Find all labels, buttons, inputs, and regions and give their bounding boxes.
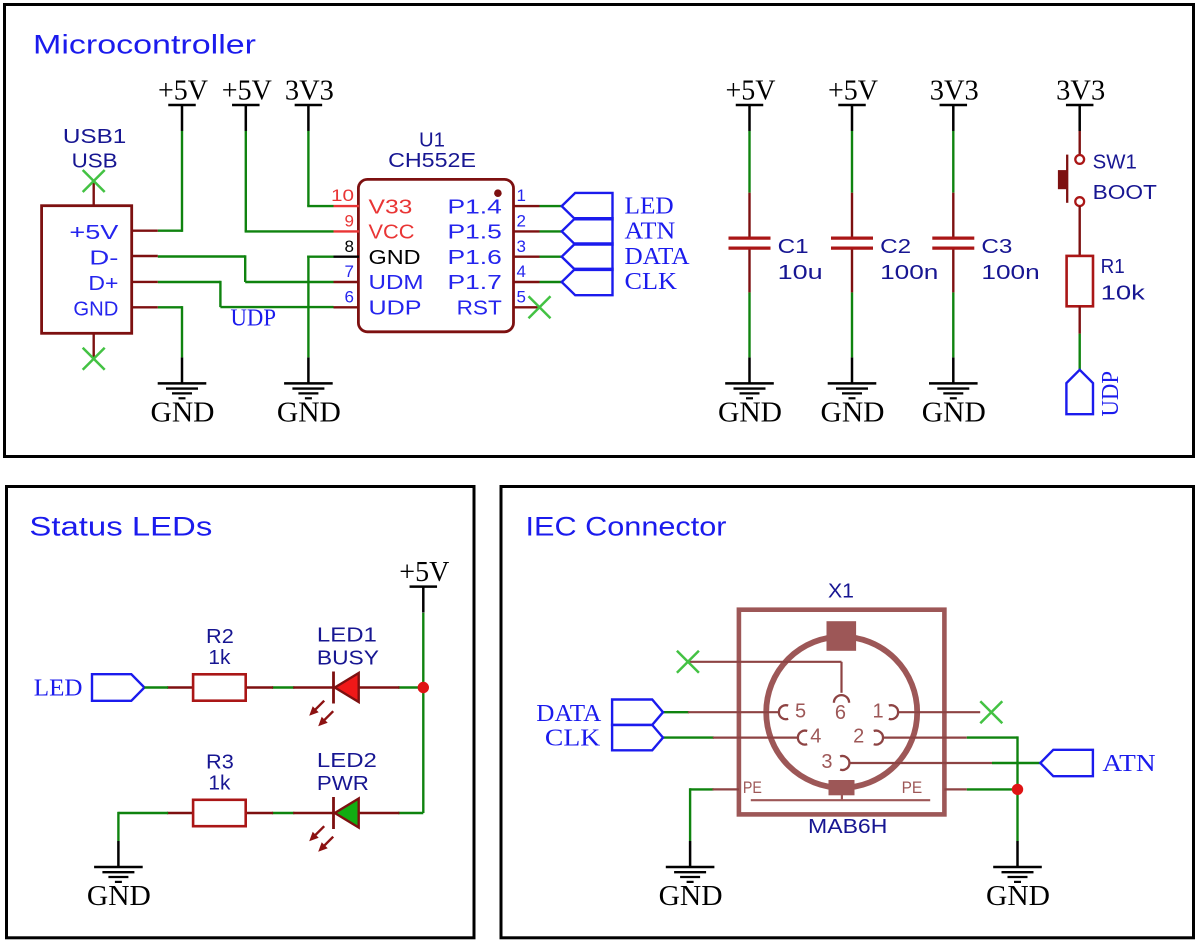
svg-text:CLK: CLK <box>625 269 678 295</box>
svg-text:USB1: USB1 <box>63 126 126 148</box>
svg-text:C1: C1 <box>778 236 809 258</box>
svg-text:DATA: DATA <box>625 244 691 270</box>
svg-text:ATN: ATN <box>1102 751 1155 777</box>
svg-text:3V3: 3V3 <box>285 76 334 107</box>
svg-text:UDP: UDP <box>231 306 277 332</box>
svg-text:UDP: UDP <box>1098 371 1124 417</box>
svg-text:Status LEDs: Status LEDs <box>29 512 212 542</box>
svg-text:5: 5 <box>517 287 526 306</box>
svg-text:8: 8 <box>345 237 354 256</box>
svg-text:+5V: +5V <box>828 76 878 107</box>
svg-text:D-: D- <box>89 248 118 270</box>
svg-text:6: 6 <box>345 287 354 306</box>
svg-text:4: 4 <box>517 262 526 281</box>
svg-text:1: 1 <box>517 186 526 205</box>
svg-text:3V3: 3V3 <box>930 76 979 107</box>
svg-text:3V3: 3V3 <box>1056 76 1105 107</box>
svg-text:P1.6: P1.6 <box>448 247 502 269</box>
svg-text:LED2: LED2 <box>317 750 377 772</box>
svg-text:1k: 1k <box>208 647 231 669</box>
svg-text:IEC Connector: IEC Connector <box>526 512 727 542</box>
svg-text:P1.5: P1.5 <box>448 222 502 244</box>
svg-text:BUSY: BUSY <box>317 648 379 670</box>
svg-text:GND: GND <box>922 398 986 429</box>
svg-text:GND: GND <box>87 881 151 912</box>
svg-text:GND: GND <box>659 881 723 912</box>
svg-text:9: 9 <box>345 212 354 231</box>
svg-text:PWR: PWR <box>317 773 369 795</box>
svg-text:2: 2 <box>853 726 864 748</box>
svg-text:C2: C2 <box>880 236 911 258</box>
svg-text:R2: R2 <box>206 626 234 648</box>
svg-text:+5V: +5V <box>158 76 208 107</box>
svg-text:DATA: DATA <box>536 701 602 727</box>
svg-text:6: 6 <box>835 702 846 724</box>
svg-text:UDP: UDP <box>369 298 422 320</box>
svg-text:1k: 1k <box>208 772 231 794</box>
svg-text:GND: GND <box>151 398 215 429</box>
svg-text:V33: V33 <box>369 196 413 218</box>
svg-text:3: 3 <box>517 237 526 256</box>
svg-text:+5V: +5V <box>69 222 119 244</box>
svg-text:R3: R3 <box>206 752 234 774</box>
svg-text:+5V: +5V <box>399 557 449 588</box>
svg-text:Microcontroller: Microcontroller <box>33 30 256 60</box>
svg-text:LED: LED <box>625 193 674 219</box>
svg-text:R1: R1 <box>1101 256 1125 278</box>
svg-text:MAB6H: MAB6H <box>808 816 887 838</box>
svg-text:3: 3 <box>821 751 832 773</box>
svg-text:GND: GND <box>73 299 118 321</box>
svg-text:SW1: SW1 <box>1093 152 1137 174</box>
svg-text:C3: C3 <box>981 236 1012 258</box>
svg-text:PE: PE <box>902 778 923 797</box>
svg-text:2: 2 <box>517 212 526 231</box>
svg-text:UDM: UDM <box>369 272 424 294</box>
svg-text:GND: GND <box>718 398 782 429</box>
svg-text:7: 7 <box>345 262 354 281</box>
svg-text:RST: RST <box>457 298 502 320</box>
svg-text:4: 4 <box>810 726 821 748</box>
svg-text:10k: 10k <box>1101 282 1147 304</box>
svg-text:1: 1 <box>873 700 884 722</box>
svg-text:PE: PE <box>743 778 762 797</box>
svg-text:100n: 100n <box>880 262 938 284</box>
svg-text:100n: 100n <box>981 262 1039 284</box>
svg-text:P1.7: P1.7 <box>448 272 502 294</box>
svg-text:GND: GND <box>821 398 885 429</box>
svg-text:CLK: CLK <box>545 726 601 752</box>
svg-text:+5V: +5V <box>726 76 776 107</box>
svg-text:10u: 10u <box>778 262 823 284</box>
svg-text:+5V: +5V <box>222 76 272 107</box>
svg-text:GND: GND <box>277 398 341 429</box>
svg-text:BOOT: BOOT <box>1093 182 1157 204</box>
svg-text:U1: U1 <box>419 129 445 151</box>
svg-text:LED1: LED1 <box>317 624 377 646</box>
svg-text:ATN: ATN <box>625 219 676 245</box>
svg-text:LED: LED <box>34 676 83 702</box>
svg-text:X1: X1 <box>828 581 854 603</box>
svg-text:D+: D+ <box>88 273 118 295</box>
svg-text:VCC: VCC <box>369 222 415 244</box>
svg-text:GND: GND <box>986 881 1050 912</box>
svg-text:5: 5 <box>795 700 806 722</box>
svg-text:10: 10 <box>331 186 354 205</box>
svg-text:P1.4: P1.4 <box>448 196 502 218</box>
svg-text:CH552E: CH552E <box>388 150 476 172</box>
svg-text:GND: GND <box>369 247 421 269</box>
svg-text:USB: USB <box>72 150 118 172</box>
